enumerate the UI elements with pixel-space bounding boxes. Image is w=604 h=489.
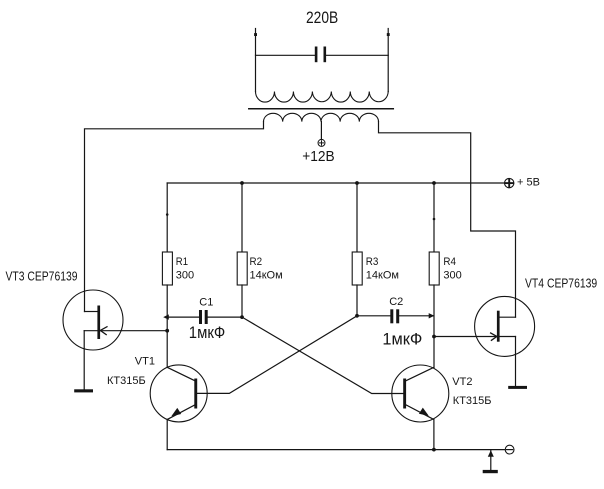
capacitor C1 (199, 310, 208, 324)
transistor VT4 body circle (475, 296, 535, 356)
svg-text:КТ315Б: КТ315Б (453, 395, 492, 407)
label VT1 КТ315Б (107, 355, 155, 387)
label VT2 КТ315Б (452, 376, 491, 407)
svg-text:300: 300 (443, 269, 461, 281)
svg-text:1мкФ: 1мкФ (189, 323, 225, 342)
wire cross coupling R2/C1 node to VT2 base (242, 317, 403, 393)
wire VT3 source down (83, 331, 85, 390)
node rail junction R3 (355, 181, 359, 185)
wire +5V supply rail (167, 182, 504, 184)
resistor R3 (352, 252, 362, 285)
svg-text:VT3 CEP76139: VT3 CEP76139 (6, 269, 78, 284)
svg-text:+12В: +12В (302, 148, 334, 165)
resistor R2 (237, 252, 247, 285)
svg-text:VT1: VT1 (135, 355, 155, 367)
ground under VT4 (508, 386, 527, 389)
wire VT2 emitter to rail (433, 419, 435, 449)
wire VT1 emitter to rail (166, 419, 168, 449)
wire R3 to C2 node (356, 285, 358, 316)
label VT4 CEP76139 (525, 276, 597, 291)
wire R4 to node B (433, 285, 435, 367)
node stub dot on R4 wire (433, 218, 436, 221)
svg-text:300: 300 (176, 269, 194, 281)
node primary left terminal (254, 33, 257, 36)
label R3 14кОм (366, 256, 399, 281)
label + 5В (517, 177, 540, 189)
wire VT1 collector (167, 367, 195, 381)
wire capacitor link left segment (256, 54, 315, 56)
wire center tap (320, 122, 322, 140)
label R2 14кОм (250, 256, 283, 281)
transistor VT1 base bar (194, 379, 197, 409)
transformer T1 secondary winding (12V side) (264, 113, 379, 121)
wire VT2 collector (406, 367, 434, 381)
transistor VT1 body circle (150, 365, 207, 422)
wire secondary right lead to VT4 drain (379, 122, 516, 318)
wire VT2 emitter (406, 405, 434, 420)
wire cross coupling R3/C2 node to VT1 base (197, 316, 357, 394)
arrow VT1 emitter (171, 408, 181, 416)
wire VT4 gate line from node B (434, 336, 516, 338)
wire rail to R4 (433, 183, 435, 252)
svg-text:R4: R4 (443, 256, 456, 268)
ground bottom right (483, 470, 498, 473)
transistor VT2 body circle (392, 365, 449, 422)
label C1 1мкФ (189, 296, 225, 342)
svg-text:VT2: VT2 (452, 376, 472, 388)
wire rail to R3 (356, 183, 358, 252)
svg-text:C1: C1 (199, 296, 213, 308)
node R4-VT4 junction (node B) (432, 335, 436, 339)
svg-text:R2: R2 (250, 256, 263, 268)
node stub dot on R1 wire (166, 213, 169, 216)
svg-text:220В: 220В (306, 8, 338, 27)
node rail junction R4 (432, 181, 436, 185)
wire primary left lead (255, 29, 257, 92)
terminal +12V (circled plus) (318, 139, 325, 146)
arrow VT2 emitter (419, 408, 429, 416)
wire rail to R1 (166, 183, 168, 252)
wire C2 to node B (399, 315, 434, 317)
resistor R4 (429, 252, 439, 285)
svg-text:КТ315Б: КТ315Б (107, 375, 146, 387)
wire secondary left lead to VT3 drain (85, 122, 264, 312)
label C2 1мкФ (382, 296, 422, 349)
capacitor C2 (390, 309, 399, 323)
arrow on ground stem (488, 450, 494, 457)
label R4 300 (443, 256, 461, 281)
node VT2 emitter junction on rail (432, 448, 436, 452)
svg-text:R1: R1 (176, 256, 188, 268)
ground under VT3 (74, 389, 93, 392)
wire VT4 source down (515, 337, 517, 386)
label VT3 CEP76139 (6, 269, 78, 284)
label +12В (302, 148, 334, 165)
wire VT1 emitter (167, 405, 195, 420)
wire capacitor link right segment (326, 54, 388, 56)
node R1-VT3-VT1 junction (node A) (165, 329, 169, 333)
node primary right terminal (387, 33, 390, 36)
arrow VT4 pointing to bar (491, 333, 497, 340)
transistor VT3 base bar (97, 306, 100, 340)
svg-text:14кОм: 14кОм (250, 269, 283, 281)
wire VT3 drain stub (85, 311, 98, 313)
label R1 300 (176, 256, 194, 282)
node C2-R3 junction (355, 314, 359, 318)
wire VT3 gate/source line to node A (84, 330, 167, 332)
svg-text:+ 5В: + 5В (517, 177, 540, 189)
label 220В (mains output voltage) (306, 8, 338, 27)
wire R2 to C1 node (241, 285, 243, 317)
wire C2 node to C2 (357, 315, 390, 317)
arrow VT3 pointing to bar (100, 327, 107, 335)
node C1-R2 junction (240, 315, 244, 319)
terminal minus (circled minus) (505, 445, 514, 454)
arrow at node A on C1 wire (163, 314, 169, 319)
wire node A to C1 (167, 316, 199, 318)
capacitor across transformer primary (315, 47, 326, 63)
wire primary right lead (387, 29, 389, 92)
svg-text:1мкФ: 1мкФ (382, 330, 422, 349)
wire C1 to R2 node (208, 316, 242, 318)
arrow at node B on C2 wire (429, 313, 435, 318)
svg-text:14кОм: 14кОм (366, 269, 399, 281)
transistor VT4 base bar (497, 311, 500, 342)
wire rail to R2 (241, 183, 243, 252)
resistor R1 (162, 252, 172, 285)
node rail junction R2 (240, 181, 244, 185)
svg-text:VT4 CEP76139: VT4 CEP76139 (525, 276, 597, 291)
svg-text:C2: C2 (389, 296, 403, 308)
terminal +5V (circled plus) (505, 178, 514, 187)
transistor VT3 body circle (63, 290, 123, 350)
transistor VT2 base bar (403, 379, 406, 409)
wire ground stem (490, 450, 492, 470)
transformer T1 core (249, 108, 393, 110)
wire emitter ground rail (167, 449, 505, 451)
svg-text:R3: R3 (366, 256, 379, 268)
wire VT4 drain stub (500, 316, 516, 318)
wire R1 to node A (166, 285, 168, 367)
transformer T1 primary winding (220V side) (256, 92, 389, 103)
